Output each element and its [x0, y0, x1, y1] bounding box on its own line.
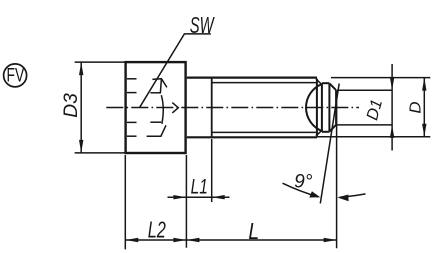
hex socket bottom facet	[147, 125, 166, 136]
thrust pad collar line	[328, 83, 330, 132]
hex socket hidden tick row 4	[127, 135, 137, 137]
angle arc right with arrow	[340, 194, 366, 197]
thrust pad top edge	[322, 82, 330, 84]
svg-text:D: D	[407, 101, 425, 113]
svg-text:D1: D1	[363, 97, 386, 122]
dimension D3 extension bottom	[75, 152, 125, 154]
dimension D line	[423, 78, 425, 137]
svg-text:FV: FV	[7, 65, 25, 87]
svg-text:L1: L1	[191, 174, 208, 198]
thrust pad rim	[321, 84, 323, 132]
thread end chamfer bottom	[316, 130, 322, 136]
extension line below head right	[185, 155, 187, 248]
node FV view symbol circle	[4, 64, 27, 87]
extension line vertical at pad face	[336, 91, 338, 248]
neck and thread major outline top	[187, 76, 317, 78]
dimension D1 extension bottom	[337, 124, 393, 126]
hex socket top inner edge	[160, 79, 161, 93]
dimension D extension bottom	[317, 136, 430, 138]
label L1	[191, 174, 208, 198]
hex socket top facet	[152, 79, 167, 88]
thread end chamfer top	[316, 79, 322, 85]
svg-text:L: L	[248, 218, 259, 244]
dimension D3 extension top	[75, 61, 125, 63]
head outline D3 cylinder	[126, 62, 186, 153]
dimension L line	[186, 239, 336, 241]
label L2	[148, 218, 166, 243]
label SW	[190, 13, 215, 39]
label D1	[363, 97, 386, 122]
axis centerline	[106, 107, 359, 109]
dimension D extension top	[331, 77, 430, 79]
dimension D1 line with outside arrows	[391, 64, 393, 151]
hex socket hidden tick row 2	[127, 92, 137, 94]
tilted pad face line 9 degrees	[320, 84, 339, 204]
angle arc left with arrow	[283, 183, 319, 197]
label 9 degrees	[294, 171, 313, 192]
axis arrowhead in head	[172, 103, 178, 113]
hex socket hidden tick row 3	[127, 121, 137, 123]
ball end arc	[306, 84, 322, 131]
extension line below head left	[124, 155, 126, 249]
dimension D3 line	[80, 62, 82, 153]
thread end line	[316, 79, 318, 137]
hex socket top chord	[150, 92, 161, 94]
thrust pad bottom edge	[322, 131, 330, 133]
hex socket hidden tick row 1	[127, 78, 137, 80]
thread start line	[211, 78, 213, 138]
hex socket central arc	[161, 95, 163, 124]
neck and thread major outline bottom	[187, 136, 317, 138]
label L	[248, 218, 259, 244]
dimension L1 line	[168, 196, 230, 198]
thread minor line bottom	[212, 131, 316, 133]
dimension D1 extension top	[337, 89, 393, 91]
thrust pad chamfer top	[330, 84, 336, 91]
label D	[407, 101, 425, 113]
dimension L2 line	[125, 239, 186, 241]
svg-text:D3: D3	[61, 93, 82, 118]
svg-text:SW: SW	[190, 13, 215, 39]
thrust pad chamfer bottom	[330, 125, 336, 131]
hex socket bottom chord	[150, 121, 161, 123]
svg-text:L2: L2	[148, 218, 166, 243]
label FV	[7, 65, 25, 87]
thread minor line top	[212, 82, 316, 84]
extension line below thread start	[211, 139, 213, 202]
SW leader line	[139, 34, 210, 108]
label D3	[61, 93, 82, 118]
svg-text:9°: 9°	[294, 171, 313, 192]
thrust pad face	[335, 90, 337, 125]
